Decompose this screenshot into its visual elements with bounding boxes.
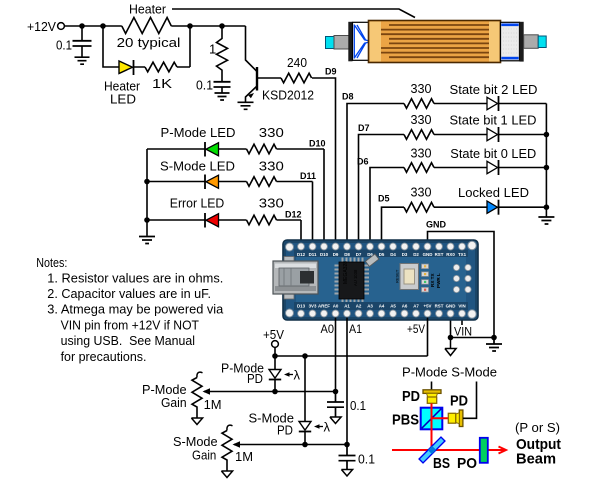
svg-text:PD: PD: [247, 371, 263, 386]
svg-text:Locked LED: Locked LED: [458, 185, 529, 200]
svg-text:AU 1038: AU 1038: [353, 269, 358, 286]
svg-text:D3: D3: [402, 252, 408, 257]
wire S-Mode PD optics lead: [463, 382, 477, 419]
PO polarizer plate: [457, 438, 488, 472]
node dot GND bottom: [448, 335, 454, 341]
wire D9 net: [312, 67, 337, 244]
svg-text:PD: PD: [277, 423, 293, 438]
svg-text:for precautions.: for precautions.: [61, 349, 147, 364]
svg-text:MEGA328: MEGA328: [343, 261, 349, 284]
red beam PBS to side PD: [432, 417, 449, 419]
svg-text:D5: D5: [378, 194, 390, 204]
node dots P gain rail: [272, 389, 338, 395]
wire D7 net state bit 1 row: [358, 123, 546, 243]
svg-text:0.1: 0.1: [358, 452, 375, 467]
red output beam: [392, 447, 506, 454]
svg-text:λ: λ: [324, 420, 331, 435]
capacitor C3 0.1 A0: [327, 392, 366, 417]
svg-text:20 typical: 20 typical: [117, 35, 181, 50]
label Heater with pointer line: [129, 2, 415, 18]
svg-text:RST: RST: [435, 304, 444, 309]
Arduino mini-USB connector: [273, 257, 318, 300]
wire GND bottom pin: [451, 318, 495, 338]
wire P gain rail: [204, 318, 336, 392]
wire state LED common cathode: [545, 104, 547, 217]
wire P-Mode PD optics lead: [431, 382, 433, 390]
svg-text:1K: 1K: [152, 76, 172, 91]
wire GND net from top pin: [426, 220, 494, 338]
potentiometer S-Mode Gain 1M: [173, 425, 253, 470]
heater left glass cone: [353, 22, 369, 60]
svg-text:PBS: PBS: [392, 412, 419, 429]
svg-text:1. Resistor values are in ohms: 1. Resistor values are in ohms.: [47, 270, 223, 285]
svg-text:+5V: +5V: [407, 324, 425, 336]
svg-text:330: 330: [411, 112, 432, 127]
heater left gray stem: [334, 36, 349, 50]
ground below C2: [215, 93, 230, 100]
Arduino ATmega chip U1: [335, 258, 370, 303]
svg-text:0.1: 0.1: [350, 398, 366, 413]
svg-text:PO: PO: [457, 455, 477, 472]
heater right end plate: [520, 22, 524, 62]
svg-text:S-Mode LED: S-Mode LED: [160, 159, 235, 174]
svg-text:+5V: +5V: [263, 327, 284, 342]
ground below C1: [75, 57, 90, 64]
Arduino bottom pin holes: [298, 310, 466, 317]
PBS cube: [392, 408, 442, 430]
resistor R330 S-Mode: [247, 159, 317, 187]
resistor R-heater 20 typical: [117, 18, 181, 50]
svg-text:D9: D9: [333, 252, 339, 257]
svg-text:PD: PD: [450, 393, 468, 410]
resistor R330 state bit 1: [404, 112, 434, 139]
label P or S output beam: [515, 420, 561, 468]
svg-text:3. Atmega may be powered via: 3. Atmega may be powered via: [47, 302, 224, 317]
node +5V terminal: [263, 327, 284, 347]
wire S gain rail: [234, 318, 362, 445]
svg-text:State bit 2 LED: State bit 2 LED: [450, 82, 538, 97]
svg-text:A4: A4: [379, 304, 385, 309]
svg-text:using USB. See Manual: using USB. See Manual: [61, 333, 196, 348]
svg-text:330: 330: [259, 125, 284, 140]
svg-text:KSD2012: KSD2012: [262, 87, 314, 102]
LED State bit 0: [450, 146, 536, 175]
Arduino Nano board: [283, 240, 478, 320]
svg-text:D6: D6: [357, 157, 369, 167]
BS beam splitter plate: [419, 437, 450, 472]
Arduino oscillator: [365, 254, 378, 267]
Arduino top silkscreen pin labels: [297, 252, 467, 257]
svg-text:D7: D7: [356, 252, 362, 257]
node dots +5V rail: [272, 353, 308, 359]
capacitor C4 0.1 A1: [339, 445, 376, 470]
svg-text:D12: D12: [285, 210, 302, 220]
svg-text:D13: D13: [297, 304, 306, 309]
ground left LED column: [139, 237, 155, 244]
svg-text:D12: D12: [297, 252, 306, 257]
svg-text:1M: 1M: [204, 397, 222, 412]
svg-text:1M: 1M: [235, 449, 253, 464]
svg-text:RX0: RX0: [446, 252, 455, 257]
heater right glass section: [501, 22, 520, 61]
LED S-Mode orange row: [147, 159, 313, 243]
svg-text:D11: D11: [309, 252, 317, 257]
wire +5V rail: [275, 318, 428, 357]
svg-text:0.1: 0.1: [196, 78, 213, 93]
svg-text:D11: D11: [300, 171, 316, 181]
svg-text:D2: D2: [413, 252, 419, 257]
svg-text:330: 330: [259, 159, 284, 174]
node junction dots on +12V rail: [79, 23, 225, 29]
svg-text:A0: A0: [321, 324, 335, 336]
svg-text:AREF: AREF: [318, 304, 330, 309]
svg-text:GND: GND: [446, 304, 456, 309]
svg-text:RX TX: RX TX: [430, 273, 435, 287]
Arduino top pin holes: [298, 243, 466, 250]
svg-text:RST: RST: [435, 252, 444, 257]
svg-text:P-Mode S-Mode: P-Mode S-Mode: [402, 365, 497, 380]
wire D6 net state bit 0 row: [357, 157, 546, 244]
photodiode package side PD: [448, 393, 468, 427]
wire heater LED branch: [103, 26, 190, 67]
ground arrow below P pot: [191, 418, 202, 425]
svg-text:3V3: 3V3: [309, 304, 317, 309]
svg-text:D10: D10: [309, 139, 326, 149]
svg-text:VIN pin from +12V if NOT: VIN pin from +12V if NOT: [61, 317, 199, 332]
svg-text:A2: A2: [356, 304, 362, 309]
svg-text:330: 330: [259, 196, 284, 211]
svg-text:D8: D8: [342, 92, 354, 102]
node +12V terminal: [27, 19, 64, 34]
resistor R330 state bit 2: [404, 81, 434, 108]
LED Error red row: [147, 196, 301, 243]
svg-text:A1: A1: [344, 304, 350, 309]
svg-text:(P or S): (P or S): [515, 420, 560, 435]
svg-text:D5: D5: [379, 252, 385, 257]
svg-text:A3: A3: [367, 304, 373, 309]
svg-text:Gain: Gain: [192, 448, 216, 463]
potentiometer P-Mode Gain 1M: [142, 372, 222, 417]
svg-text:PWR L: PWR L: [436, 273, 441, 288]
svg-text:D7: D7: [358, 123, 370, 133]
svg-text:P-Mode LED: P-Mode LED: [161, 125, 236, 140]
ground arrow below C4: [341, 470, 352, 477]
svg-text:1: 1: [209, 42, 216, 57]
transistor Q1 KSD2012: [246, 26, 315, 102]
svg-text:A1: A1: [349, 324, 362, 336]
svg-text:Heater: Heater: [129, 2, 167, 17]
ground arrow below GND bottom pin: [445, 338, 456, 356]
svg-text:330: 330: [411, 185, 432, 200]
svg-text:λ: λ: [294, 368, 301, 383]
ground below GND right: [486, 338, 502, 352]
LED Locked blue: [458, 185, 529, 215]
svg-text:TX1: TX1: [458, 252, 467, 257]
LED State bit 2: [450, 82, 538, 111]
LED State bit 1: [450, 113, 537, 143]
wire D8 net state bit 2 row: [342, 92, 546, 244]
svg-text:State bit 1 LED: State bit 1 LED: [450, 113, 537, 128]
node dot GND right: [491, 335, 497, 341]
heater assembly photo: [326, 21, 547, 63]
red beam vertical: [431, 404, 433, 451]
LED P-Mode green row: [147, 125, 324, 243]
resistor R330 Error: [247, 196, 302, 225]
heater left cyan tip: [326, 37, 335, 49]
resistor R 1 (base bleed): [209, 26, 228, 82]
node dots left column: [144, 179, 150, 223]
svg-text:LED: LED: [110, 92, 136, 107]
LED D-heater yellow: [104, 60, 141, 107]
svg-text:GND: GND: [426, 220, 447, 230]
Arduino reset button: [395, 264, 419, 290]
svg-text:A5: A5: [390, 304, 396, 309]
Arduino LED cluster: [422, 264, 442, 292]
ground arrow below S pot: [221, 471, 232, 478]
svg-text:State bit 0 LED: State bit 0 LED: [450, 146, 536, 161]
svg-text:A6: A6: [402, 304, 408, 309]
svg-text:D9: D9: [325, 67, 337, 77]
resistor R 1K: [145, 62, 177, 91]
svg-text:Beam: Beam: [516, 451, 556, 468]
ground arrow below C3: [330, 417, 341, 424]
resistor R330 P-Mode: [247, 125, 326, 154]
notes text block: [36, 255, 224, 364]
heater left end plate: [348, 22, 352, 62]
resistor R 240 base: [281, 55, 312, 83]
svg-text:A7: A7: [413, 304, 419, 309]
svg-text:PD: PD: [402, 388, 420, 405]
heater right cyan tip: [538, 36, 546, 48]
svg-text:D10: D10: [320, 252, 329, 257]
svg-text:BS: BS: [433, 455, 450, 472]
capacitor C2 0.1 base: [196, 78, 231, 93]
svg-text:D8: D8: [344, 252, 350, 257]
Arduino ICSP pads: [453, 264, 471, 292]
wire D5 net locked row: [378, 194, 546, 244]
svg-text:D4: D4: [390, 252, 396, 257]
ground below Q1 emitter: [238, 102, 254, 109]
resistor R330 locked: [404, 185, 434, 212]
Arduino bottom silkscreen pin labels: [297, 304, 466, 309]
svg-text:+5V: +5V: [424, 304, 432, 309]
svg-text:2. Capacitor values are in uF.: 2. Capacitor values are in uF.: [47, 286, 211, 301]
svg-text:0.1: 0.1: [56, 38, 72, 53]
svg-text:VIN: VIN: [454, 327, 472, 339]
svg-text:Notes:: Notes:: [36, 255, 67, 270]
svg-text:Error LED: Error LED: [170, 196, 225, 211]
svg-text:330: 330: [411, 145, 432, 160]
svg-text:+12V: +12V: [27, 19, 56, 34]
wire left LED column: [146, 149, 148, 236]
photodiode package top PD: [402, 388, 441, 405]
svg-text:RESET: RESET: [395, 269, 400, 283]
svg-text:A0: A0: [333, 304, 339, 309]
wire VIN stub: [454, 318, 472, 339]
photodiode P-Mode PD: [221, 356, 301, 392]
ground state LED column: [538, 217, 554, 224]
wire +12V rail: [65, 25, 246, 27]
svg-text:330: 330: [411, 81, 432, 96]
capacitor C1 0.1 input: [56, 26, 92, 57]
svg-text:VIN: VIN: [458, 304, 465, 309]
heater right gray stem: [524, 35, 539, 49]
resistor R330 state bit 0: [404, 145, 434, 172]
node dots S gain rail: [302, 442, 350, 448]
Arduino mounting holes: [286, 241, 477, 318]
photodiode S-Mode PD: [249, 356, 331, 445]
svg-text:GND: GND: [423, 252, 433, 257]
svg-text:Gain: Gain: [161, 395, 187, 410]
svg-text:240: 240: [287, 55, 307, 70]
heater orange finned body: [369, 21, 501, 63]
node dots state cathode column: [544, 132, 550, 210]
